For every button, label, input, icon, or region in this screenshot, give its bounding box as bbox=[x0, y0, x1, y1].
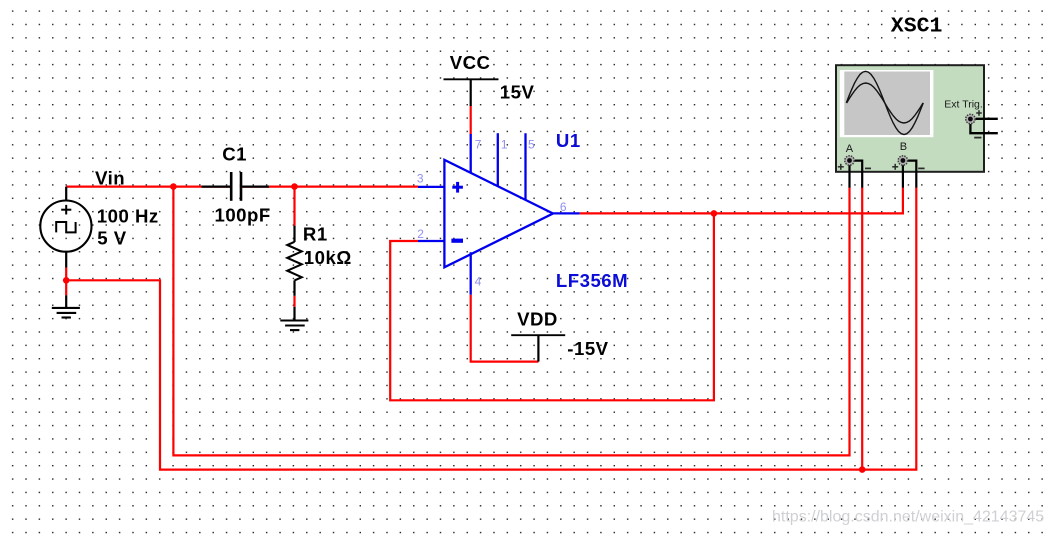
resistor R1 bbox=[287, 226, 301, 296]
svg-text:100pF: 100pF bbox=[215, 204, 271, 225]
wire A- drop to ground rail bbox=[861, 188, 863, 470]
terminal A bbox=[845, 156, 854, 165]
svg-text:5: 5 bbox=[528, 138, 535, 152]
scope trace curve 2 bbox=[847, 83, 923, 123]
wire ext trig plus stub bbox=[976, 118, 998, 120]
svg-text:C1: C1 bbox=[222, 144, 247, 165]
junction node A-/ground rail bbox=[859, 466, 866, 473]
scope trace curve 1 bbox=[846, 71, 923, 134]
VCC power symbol bbox=[444, 79, 499, 106]
svg-text:Vin: Vin bbox=[95, 167, 125, 188]
wire B+ terminal stub bbox=[902, 163, 904, 188]
wire source bottom red segment bbox=[65, 268, 67, 296]
terminal B minus mark bbox=[918, 167, 924, 169]
pin 2 stub bbox=[418, 240, 444, 242]
svg-text:-15V: -15V bbox=[567, 338, 608, 359]
capacitor C1 bbox=[202, 172, 270, 201]
wire ext trig minus hook bbox=[970, 124, 997, 133]
svg-text:1: 1 bbox=[501, 138, 508, 152]
svg-text:VDD: VDD bbox=[517, 309, 558, 330]
pin 1 stub bbox=[497, 133, 499, 186]
junction node source minus/ground bbox=[63, 277, 70, 284]
svg-text:5 V: 5 V bbox=[97, 227, 127, 248]
terminal A plus mark bbox=[838, 164, 844, 170]
wire output pin6 to B+ bbox=[580, 188, 903, 214]
svg-text:4: 4 bbox=[475, 275, 482, 289]
wire Vin horizontal net (source to op-amp pin 3) bbox=[66, 186, 418, 188]
wire ground net: source minus to bottom rail to B- bbox=[66, 188, 916, 470]
svg-text:R1: R1 bbox=[303, 223, 328, 244]
junction node output/feedback bbox=[711, 210, 718, 217]
svg-text:10kΩ: 10kΩ bbox=[304, 247, 352, 268]
wire R1 top red segment bbox=[293, 187, 295, 226]
wire A- terminal hook bbox=[855, 161, 863, 188]
source V1 square-wave generator circle bbox=[40, 187, 91, 268]
svg-text:2: 2 bbox=[417, 227, 424, 241]
wire VCC red segment bbox=[470, 106, 472, 135]
terminal B bbox=[898, 156, 907, 165]
wire B- terminal hook bbox=[908, 161, 917, 188]
ext trig plus mark bbox=[976, 110, 982, 116]
ext trig minus mark bbox=[974, 137, 981, 139]
wire pin4 to VDD red segment bbox=[471, 295, 539, 362]
svg-text:7: 7 bbox=[475, 138, 482, 152]
pin 7 stub bbox=[470, 134, 472, 174]
svg-text:VCC: VCC bbox=[450, 52, 491, 73]
svg-text:3: 3 bbox=[417, 172, 424, 186]
svg-text:U1: U1 bbox=[556, 130, 581, 151]
svg-text:XSC1: XSC1 bbox=[891, 14, 943, 38]
VDD power symbol bbox=[511, 335, 565, 361]
svg-text:A: A bbox=[846, 143, 854, 155]
svg-text:LF356M: LF356M bbox=[556, 270, 628, 291]
oscilloscope screen bbox=[840, 70, 934, 137]
pin 6 stub bbox=[553, 212, 580, 214]
junction node C1/R1/pin3 bbox=[291, 183, 298, 190]
wire A+ terminal stub bbox=[848, 163, 850, 188]
svg-text:B: B bbox=[900, 141, 907, 153]
pin 3 stub bbox=[418, 186, 444, 188]
pin 5 stub bbox=[524, 133, 526, 200]
op-amp plus input mark bbox=[452, 182, 463, 193]
wire Vin tap down to A+ channel bbox=[173, 187, 849, 456]
oscilloscope XSC1 body bbox=[836, 65, 984, 172]
terminal B plus mark bbox=[892, 164, 898, 170]
pin 4 stub bbox=[470, 252, 472, 295]
terminal Ext Trig bbox=[966, 114, 975, 123]
junction node Vin/A+ tap bbox=[170, 183, 177, 190]
svg-text:Ext Trig.: Ext Trig. bbox=[944, 99, 983, 111]
wire feedback loop output to pin 2 bbox=[390, 213, 714, 400]
svg-text:6: 6 bbox=[560, 200, 567, 214]
ground (below R1) bbox=[280, 307, 308, 330]
terminal A minus mark bbox=[865, 167, 871, 169]
svg-text:15V: 15V bbox=[500, 81, 535, 102]
svg-text:100 Hz: 100 Hz bbox=[97, 205, 159, 226]
svg-text:https://blog.csdn.net/weixin_4: https://blog.csdn.net/weixin_42143745 bbox=[772, 509, 1044, 526]
op-amp minus input mark bbox=[451, 239, 463, 243]
op-amp U1 triangle bbox=[444, 160, 553, 267]
ground (below source) bbox=[52, 295, 80, 317]
wire R1 bottom red segment bbox=[293, 296, 295, 307]
